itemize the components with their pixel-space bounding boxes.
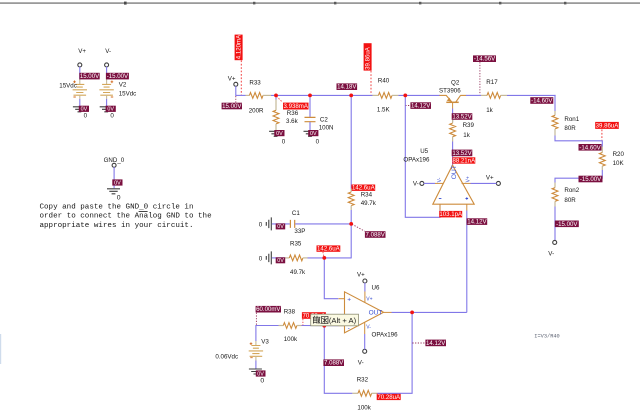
transistor Q2 ST3906: [439, 80, 466, 109]
node V- terminal (right bottom): [548, 240, 556, 257]
svg-text:10K: 10K: [613, 160, 625, 167]
wire R40 to Q2 emitter: [398, 94, 439, 96]
svg-text:V+: V+: [466, 176, 472, 182]
svg-text:0: 0: [117, 195, 121, 202]
tooltip 截图(Alt + A): [311, 314, 359, 326]
svg-text:0: 0: [259, 221, 263, 228]
wire Ron2 to V- terminal: [554, 207, 556, 241]
svg-text:R33: R33: [249, 80, 261, 87]
svg-text:1k: 1k: [486, 107, 493, 114]
wire R35 to junction: [308, 257, 352, 259]
svg-text:39.86uA: 39.86uA: [596, 123, 620, 130]
current flag 39.86uA (R20): [595, 122, 619, 140]
svg-text:-15.00V: -15.00V: [107, 73, 129, 80]
svg-text:100N: 100N: [319, 124, 334, 131]
wire R17 to right corner: [507, 94, 556, 96]
bias label -14.60V (R20 top): [579, 144, 602, 151]
node V- terminal (U5 left power): [413, 181, 435, 188]
svg-text:(Alt + A): (Alt + A): [329, 316, 357, 325]
junction dots: [274, 94, 414, 328]
svg-text:80R: 80R: [564, 125, 576, 132]
current flag 39.86uA (above R40): [364, 43, 372, 95]
wire R32 to U6 out junction: [377, 312, 412, 393]
svg-text:15Vdc: 15Vdc: [59, 83, 77, 90]
wire U6 minus feedback down: [324, 326, 352, 394]
wire R34 to C1 node: [350, 210, 352, 258]
bias label 15.00V (mid rail): [222, 96, 243, 110]
resistor R34 49.7k: [348, 189, 376, 211]
svg-text:142.6uA: 142.6uA: [352, 185, 376, 192]
svg-text:Q2: Q2: [451, 80, 460, 87]
svg-text:0: 0: [260, 377, 264, 384]
capacitor C1 33P: [272, 210, 351, 235]
svg-text:OUT: OUT: [451, 165, 458, 179]
resistor Ron1 80R: [552, 95, 580, 136]
svg-text:V-: V-: [548, 251, 554, 258]
svg-text:R40: R40: [378, 78, 390, 85]
svg-text:80R: 80R: [564, 197, 576, 204]
bias label 0V at R35: [276, 257, 286, 264]
svg-text:order to connect the Analog GN: order to connect the Analog GND to the: [40, 213, 213, 221]
svg-text:Ron2: Ron2: [564, 187, 579, 194]
svg-text:0: 0: [110, 113, 114, 120]
svg-text:V+: V+: [78, 48, 86, 55]
ground 0 at R35: [259, 251, 272, 264]
svg-text:ST3906: ST3906: [439, 87, 461, 94]
svg-text:14.12V: 14.12V: [411, 103, 431, 110]
svg-text:7.088V: 7.088V: [324, 360, 344, 367]
bias label 14.12V (R32 right): [412, 340, 446, 347]
bias label -15.00V (V2): [106, 73, 129, 80]
bias label -14.60V (R17 right): [530, 97, 553, 104]
svg-text:0V: 0V: [276, 131, 283, 137]
svg-text:0: 0: [84, 113, 88, 120]
svg-text:V-: V-: [366, 325, 371, 331]
resistor R39 1k: [450, 120, 475, 142]
svg-text:33P: 33P: [294, 228, 305, 235]
svg-text:100k: 100k: [284, 336, 298, 343]
svg-text:103.1pA: 103.1pA: [439, 211, 463, 218]
svg-text:OPAx196: OPAx196: [403, 157, 430, 164]
bias label -14.56V: [473, 55, 496, 94]
current label 142.6uA (R35): [317, 245, 341, 257]
svg-text:-14.60V: -14.60V: [579, 144, 601, 151]
resistor R38 100k: [279, 308, 302, 343]
wire U6 out to junction: [392, 311, 413, 313]
svg-text:0V: 0V: [81, 107, 88, 113]
svg-text:-15.00V: -15.00V: [580, 176, 602, 183]
svg-text:70.28uA: 70.28uA: [377, 394, 401, 401]
bias label 0V under R36: [274, 130, 284, 137]
svg-text:+: +: [347, 297, 351, 304]
wire U5 plus input down to U6 out: [412, 211, 467, 313]
wire rail R33 to R40: [271, 94, 373, 96]
svg-text:0: 0: [282, 138, 286, 145]
bias label 0V under V3: [256, 370, 266, 377]
bias label 0V at C1: [276, 223, 286, 230]
svg-text:R38: R38: [284, 308, 296, 315]
svg-text:0.06Vdc: 0.06Vdc: [215, 353, 238, 360]
svg-text:V+: V+: [486, 174, 494, 181]
svg-text:R39: R39: [463, 122, 475, 129]
svg-text:U5: U5: [420, 148, 428, 155]
bias label 14.18V: [337, 83, 358, 90]
svg-text:appropriate wires in your circ: appropriate wires in your circuit.: [40, 222, 194, 230]
svg-text:0: 0: [259, 255, 263, 262]
faint left edge artifact: [0, 334, 1, 364]
wire R20 to Ron2: [555, 170, 602, 183]
svg-text:Ron1: Ron1: [564, 116, 579, 123]
wire V+ to R33: [235, 94, 245, 96]
svg-text:88.21nA: 88.21nA: [452, 157, 476, 164]
svg-text:-14.56V: -14.56V: [474, 56, 496, 63]
wire R38 to U6 minus junction: [302, 325, 339, 327]
bias label 0V under V1: [79, 106, 89, 113]
bias label 13.52V (U5 out): [452, 150, 473, 157]
current label 3.938mA: [277, 96, 309, 110]
node V- terminal (U6 bottom power): [358, 334, 367, 366]
svg-text:0V: 0V: [114, 180, 121, 186]
svg-text:7.088V: 7.088V: [366, 232, 386, 239]
svg-text:0V: 0V: [310, 131, 317, 137]
svg-text:V-: V-: [105, 48, 111, 55]
current label 88.21nA: [452, 157, 476, 164]
node GND_0 terminal: [104, 157, 125, 188]
resistor R40 1.5K: [372, 78, 398, 114]
wire Q2 collector to R17: [466, 94, 481, 96]
svg-text:V3: V3: [261, 338, 269, 345]
wire Q2 base down: [452, 109, 454, 122]
resistor R35 49.7k: [272, 241, 308, 276]
svg-text:13.52V: 13.52V: [452, 114, 472, 121]
svg-text:1.5K: 1.5K: [377, 107, 391, 114]
bias label 14.12V (at U5 inv wire): [405, 102, 431, 109]
wire Ron1 to R20: [555, 136, 602, 147]
svg-text:R17: R17: [486, 79, 498, 86]
bias label 0V under V2: [106, 106, 116, 113]
op-amp U5 OPAx196: [403, 148, 474, 210]
svg-text:R32: R32: [357, 376, 369, 383]
wire R34 column from rail: [350, 95, 352, 188]
node V- terminal (right supply): [105, 48, 111, 80]
svg-text:V2: V2: [119, 81, 127, 88]
svg-text:C2: C2: [320, 116, 328, 123]
ground 0 under GND_0: [107, 189, 121, 202]
bias label 7.088V (R34 node): [352, 224, 386, 238]
svg-text:14.12V: 14.12V: [426, 340, 446, 347]
ground 0 at C1: [259, 217, 272, 230]
svg-text:200R: 200R: [249, 108, 264, 115]
current label 70.28uA (R38, behind tooltip): [302, 312, 326, 325]
current label 70.28uA (R32): [377, 394, 401, 401]
voltage source V3 0.06Vdc: [215, 338, 269, 368]
svg-text:0V: 0V: [257, 371, 264, 377]
top window ruler line: [0, 2, 640, 5]
instruction note text: [40, 203, 213, 230]
node V+ terminal (mid rail): [228, 76, 238, 96]
svg-text:60.00mV: 60.00mV: [256, 306, 281, 313]
svg-text:-14.60V: -14.60V: [531, 98, 553, 105]
svg-text:V-: V-: [437, 177, 443, 182]
svg-text:Copy and paste the GND_0 circl: Copy and paste the GND_0 circle in: [40, 203, 194, 211]
current flag 4.120mA: [235, 34, 243, 95]
svg-text:13.52V: 13.52V: [452, 150, 472, 157]
bias label 7.088V (U6 minus): [323, 359, 344, 366]
svg-text:R34: R34: [361, 192, 373, 199]
capacitor C2 100N: [305, 95, 334, 131]
svg-text:V+: V+: [357, 272, 365, 279]
bias label -15.00V (Ron2 bottom): [555, 221, 579, 228]
current label 103.1pA: [439, 211, 463, 218]
svg-text:V-: V-: [358, 359, 364, 366]
voltage source V2 15Vdc: [99, 79, 136, 106]
svg-text:R20: R20: [613, 151, 625, 158]
resistor R36 3.6k: [273, 95, 299, 130]
svg-text:U6: U6: [372, 284, 380, 291]
bias label 14.12V (U5 plus wire): [467, 218, 488, 225]
ground 0 under V1: [73, 107, 88, 120]
svg-text:15Vdc: 15Vdc: [119, 91, 137, 98]
svg-text:142.6uA: 142.6uA: [317, 246, 341, 253]
resistor Ron2 80R: [552, 183, 580, 207]
svg-text:100k: 100k: [357, 404, 371, 411]
resistor R17 1k: [481, 79, 507, 114]
svg-text:39.86uA: 39.86uA: [364, 46, 371, 70]
svg-text:R35: R35: [290, 241, 302, 248]
node V+ terminal (U6 top power): [357, 272, 367, 292]
svg-text:V+: V+: [228, 76, 236, 83]
svg-text:V+: V+: [366, 296, 372, 302]
svg-text:49.7k: 49.7k: [290, 269, 306, 276]
svg-text:15.00V: 15.00V: [222, 103, 242, 110]
ground 0 under R36: [269, 131, 286, 145]
bias label 60.00mV: [256, 306, 282, 325]
ground 0 under C2: [304, 131, 320, 145]
bias label 15.00V (V1 plus): [79, 73, 100, 80]
resistor R32 100k: [352, 376, 377, 411]
node V+ terminal (U5 right power): [471, 174, 501, 185]
svg-text:-15.00V: -15.00V: [556, 221, 578, 228]
wire U5 inv vertical (rail to inv input): [405, 95, 440, 217]
svg-text:OPAx196: OPAx196: [372, 332, 399, 339]
voltage source V1 15Vdc: [59, 79, 87, 106]
resistor R20 10K: [599, 147, 624, 171]
wire V3 to R38: [256, 326, 279, 342]
svg-text:OUT: OUT: [369, 310, 383, 317]
svg-text:15.00V: 15.00V: [80, 73, 100, 80]
svg-text:I=V3/R40: I=V3/R40: [534, 333, 559, 339]
svg-text:C1: C1: [292, 210, 300, 217]
node V+ terminal (left supply): [78, 48, 87, 80]
bias label 13.52V (Q2 base): [452, 113, 473, 120]
resistor R33 200R: [246, 80, 272, 115]
bias label 0V at GND_0: [112, 179, 122, 186]
svg-text:0: 0: [316, 138, 320, 145]
svg-text:14.18V: 14.18V: [337, 84, 357, 91]
wire R39 to U5 OUT: [452, 142, 454, 166]
note I=V3/R40: [534, 333, 559, 339]
svg-text:0V: 0V: [277, 258, 284, 264]
op-amp U6 OPAx196: [339, 284, 399, 338]
current label 142.6uA (R34): [351, 185, 375, 192]
svg-text:49.7k: 49.7k: [361, 200, 377, 207]
ground 0 under V2: [100, 107, 115, 120]
wire junction to U6 plus input: [324, 258, 338, 299]
svg-text:3.6k: 3.6k: [286, 118, 299, 125]
svg-text:1k: 1k: [463, 132, 470, 139]
svg-text:R36: R36: [287, 110, 299, 117]
svg-text:V-: V-: [413, 181, 419, 188]
svg-text:14.12V: 14.12V: [467, 219, 487, 226]
svg-text:0V: 0V: [277, 224, 284, 230]
ground 0 under V3: [249, 369, 265, 384]
bias label 0V under C2: [308, 130, 318, 137]
svg-text:0V: 0V: [107, 107, 114, 113]
svg-text:4.120mA: 4.120mA: [235, 34, 242, 59]
bias label -15.00V (R20 bottom): [579, 176, 603, 183]
